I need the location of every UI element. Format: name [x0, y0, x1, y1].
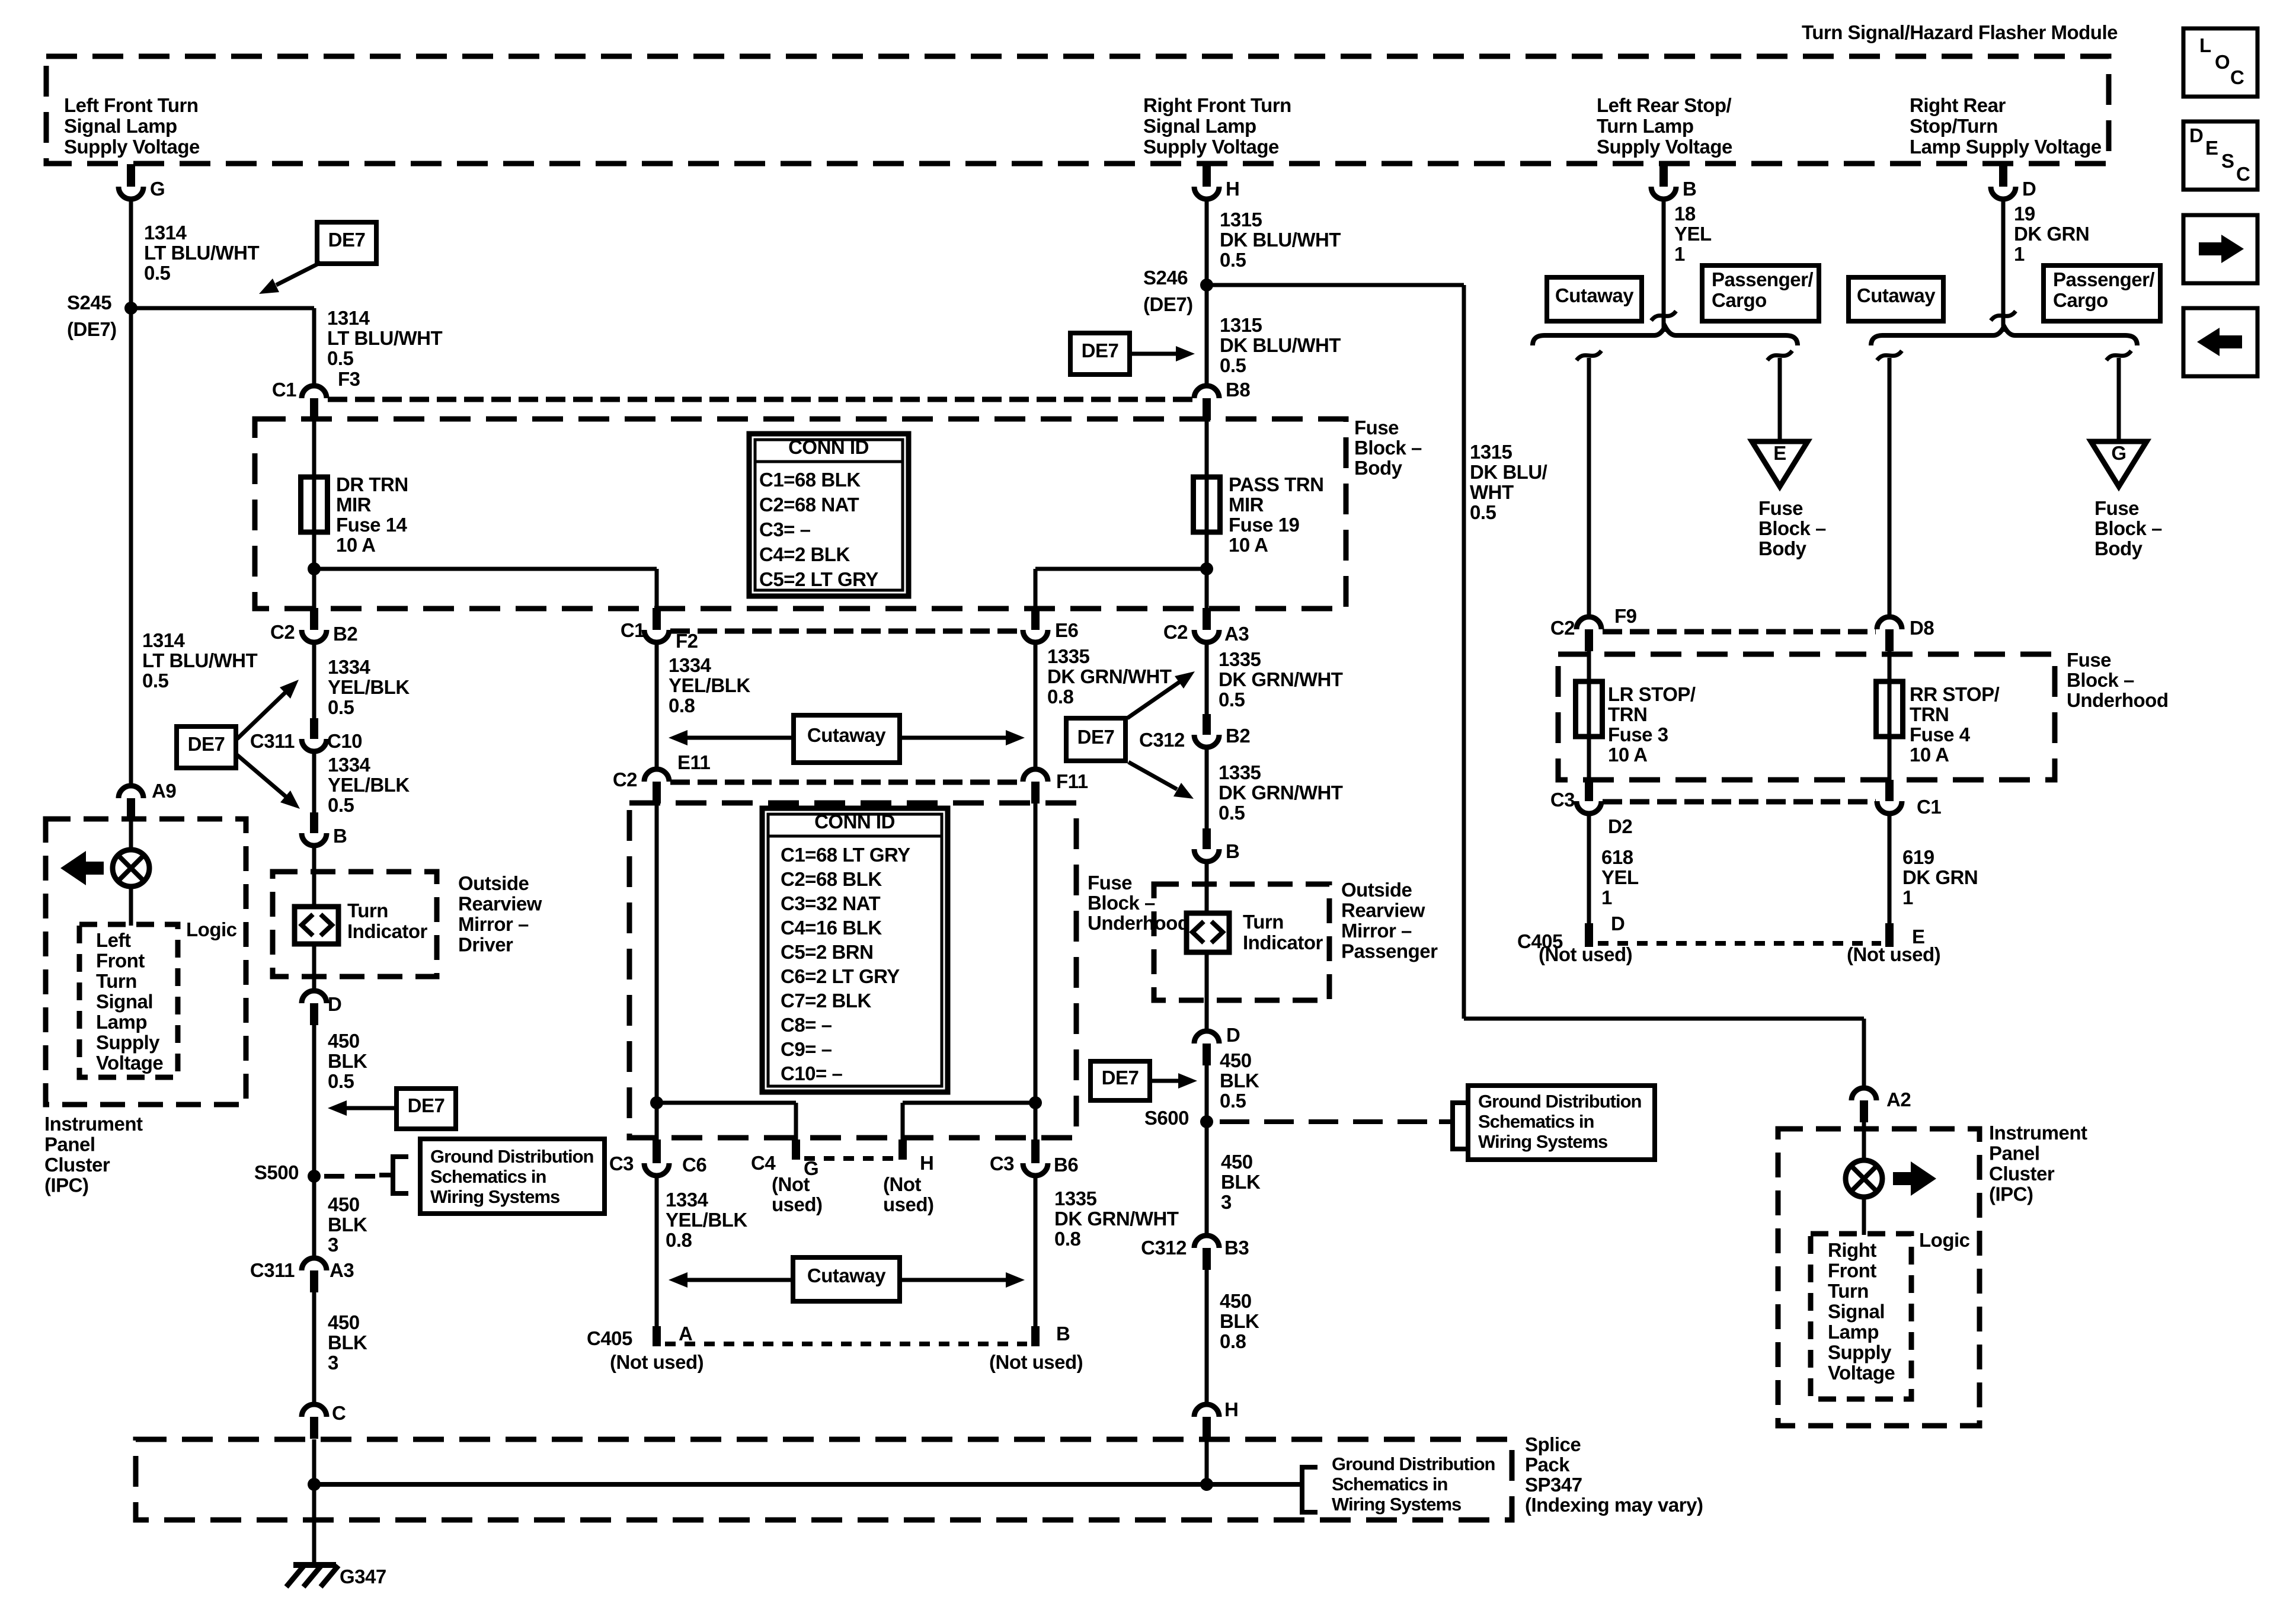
junction splice right — [1200, 1478, 1213, 1491]
dotted row C4 to H — [804, 1156, 894, 1161]
fuse DR TRN MIR Fuse 14 10A — [301, 477, 328, 532]
svg-text:used): used) — [883, 1193, 934, 1215]
svg-text:Outside: Outside — [458, 872, 529, 894]
wire D to brace — [2001, 198, 2006, 332]
wire H into splice box — [1205, 1439, 1209, 1486]
junction F11 branch — [1029, 1096, 1042, 1109]
stub A (C405) — [653, 1326, 661, 1346]
svg-text:(Not used): (Not used) — [1847, 943, 1940, 965]
svg-text:Rearview: Rearview — [458, 893, 542, 915]
svg-text:C312: C312 — [1141, 1237, 1187, 1259]
svg-text:0.5: 0.5 — [1470, 501, 1496, 523]
svg-text:E6: E6 — [1055, 619, 1079, 641]
svg-text:E: E — [1773, 442, 1786, 464]
CONN ID table 1 — [749, 434, 909, 596]
svg-text:Turn: Turn — [1243, 911, 1284, 933]
stub E (C405 right) — [1885, 923, 1894, 947]
svg-text:BLK: BLK — [1220, 1310, 1259, 1332]
svg-text:Block –: Block – — [1088, 892, 1155, 914]
connector C (splice pack) — [302, 1404, 327, 1417]
svg-text:1315: 1315 — [1220, 209, 1262, 231]
left indicator arrow — [60, 851, 86, 885]
wire C10 to B conn — [312, 751, 316, 813]
svg-text:C3: C3 — [990, 1153, 1014, 1174]
connector C3/C6 — [653, 1140, 661, 1163]
svg-text:C6: C6 — [682, 1154, 706, 1176]
break squiggle cutaway-left wire — [1576, 351, 1601, 360]
svg-text:C1=68 LT GRY: C1=68 LT GRY — [781, 844, 910, 866]
svg-text:H: H — [920, 1152, 933, 1174]
Turn Signal/Hazard Flasher Module box — [46, 56, 2109, 164]
connector A2 — [1851, 1088, 1876, 1100]
svg-text:0.5: 0.5 — [328, 794, 354, 816]
connector B8 — [1194, 386, 1219, 398]
svg-text:Turn: Turn — [347, 900, 388, 921]
wire fuse4 to C1 — [1888, 737, 1892, 781]
svg-text:C4=16 BLK: C4=16 BLK — [781, 917, 882, 939]
wire junction to F2 drop — [314, 567, 657, 571]
wire B3 to H (splice pack) — [1205, 1270, 1209, 1404]
svg-text:(IPC): (IPC) — [44, 1174, 89, 1196]
Instrument Panel Cluster box (left) — [46, 819, 246, 1105]
svg-text:A3: A3 — [330, 1259, 354, 1281]
svg-text:BLK: BLK — [1221, 1171, 1261, 1193]
svg-text:0.8: 0.8 — [1220, 1330, 1246, 1352]
wire E6 to F11 — [1034, 642, 1038, 769]
svg-text:3: 3 — [1221, 1191, 1232, 1213]
left turn signal lamp — [113, 850, 149, 886]
reference DE7 box 5 — [1091, 1061, 1150, 1100]
svg-text:C311: C311 — [250, 730, 295, 752]
arrow DE7-5 to wire — [1150, 1079, 1178, 1083]
wire D2 to stub D — [1587, 814, 1591, 924]
svg-text:DK GRN/WHT: DK GRN/WHT — [1047, 665, 1172, 687]
svg-text:A3: A3 — [1224, 623, 1249, 645]
wire B to brace — [1662, 198, 1666, 332]
svg-text:C10: C10 — [327, 730, 362, 752]
dash S500 to bracket — [324, 1174, 379, 1179]
wire A2 to lamp (right) — [1862, 1122, 1866, 1162]
svg-text:1: 1 — [1674, 243, 1685, 265]
wire to triangle E — [1778, 358, 1782, 440]
svg-text:YEL/BLK: YEL/BLK — [666, 1209, 747, 1231]
wire splice to ground — [312, 1484, 316, 1566]
connector pin D — [1999, 164, 2007, 187]
svg-text:Block –: Block – — [1354, 437, 1422, 459]
wire B2 to C311/C10 — [312, 642, 316, 719]
svg-text:B2: B2 — [1226, 725, 1250, 747]
connector D8 — [1877, 617, 1902, 629]
bracket SP347 — [1287, 1467, 1318, 1512]
svg-text:Left: Left — [96, 929, 131, 951]
turn indicator (passenger) — [1187, 913, 1229, 952]
wire branch to C4 — [657, 1101, 796, 1105]
arrow DE7-6 to wire — [347, 1106, 396, 1110]
svg-text:Logic: Logic — [1919, 1229, 1970, 1251]
svg-text:450: 450 — [328, 1030, 360, 1052]
svg-text:Body: Body — [1354, 457, 1403, 479]
arrow cutaway2 right — [900, 1278, 1006, 1282]
svg-text:Outside: Outside — [1341, 879, 1412, 901]
connector C3/D2 — [1585, 780, 1593, 801]
svg-text:D8: D8 — [1910, 617, 1934, 639]
svg-text:Indicator: Indicator — [1243, 932, 1323, 953]
Logic box (right) — [1811, 1234, 1911, 1399]
svg-text:Underhood: Underhood — [1088, 912, 1189, 934]
svg-text:10 A: 10 A — [336, 534, 375, 556]
svg-text:DK BLU/WHT: DK BLU/WHT — [1220, 229, 1341, 251]
connector C1/F2 — [653, 608, 661, 630]
wire turn indicator to D (passenger) — [1205, 952, 1209, 1031]
right-arrow legend box — [2183, 215, 2257, 283]
svg-text:C: C — [2230, 66, 2244, 88]
connector C2/A3 — [1203, 608, 1211, 630]
svg-text:Body: Body — [1758, 537, 1807, 559]
connector H (splice pack) — [1194, 1404, 1219, 1417]
svg-text:Schematics in: Schematics in — [1332, 1474, 1448, 1494]
svg-text:DK GRN/WHT: DK GRN/WHT — [1054, 1208, 1179, 1230]
Outside Rearview Mirror Passenger box — [1154, 884, 1329, 1000]
wire C1/F3 to fuse 14 — [312, 420, 316, 477]
svg-text:Mirror –: Mirror – — [1341, 920, 1412, 942]
reference DE7 box 4 — [1066, 718, 1125, 761]
splice S245 — [124, 302, 137, 315]
svg-text:Left Front Turn: Left Front Turn — [64, 94, 199, 116]
svg-text:1335: 1335 — [1219, 648, 1261, 670]
fuse RR STOP/TRN Fuse 4 10A — [1876, 681, 1903, 737]
stub C4 — [792, 1140, 800, 1160]
svg-text:DE7: DE7 — [1077, 726, 1115, 748]
svg-text:YEL/BLK: YEL/BLK — [328, 774, 410, 796]
svg-text:Mirror –: Mirror – — [458, 913, 529, 935]
svg-text:(Not used): (Not used) — [989, 1351, 1083, 1373]
wire B8 to fuse 19 — [1205, 420, 1209, 477]
wire fuse3 to C3/D2 — [1587, 737, 1591, 781]
junction E11 branch — [650, 1096, 663, 1109]
svg-text:1: 1 — [2014, 243, 2025, 265]
svg-text:C5=2 LT GRY: C5=2 LT GRY — [759, 568, 878, 590]
svg-text:Front: Front — [96, 950, 145, 972]
svg-text:1334: 1334 — [328, 656, 371, 678]
svg-text:(Not: (Not — [772, 1173, 810, 1195]
svg-text:Panel: Panel — [1989, 1142, 2040, 1164]
wire B to turn indicator — [312, 846, 316, 907]
svg-text:(Not used): (Not used) — [1539, 943, 1632, 965]
reference DE7 box 6 — [396, 1089, 456, 1129]
wire junction to A3conn — [1205, 569, 1209, 609]
Splice Pack box — [136, 1439, 1512, 1520]
wire A3 to C — [312, 1292, 316, 1404]
svg-text:DE7: DE7 — [188, 733, 225, 755]
wire S600 to C312/B3 — [1205, 1122, 1209, 1235]
svg-text:1315: 1315 — [1470, 441, 1512, 463]
bracket S500 — [379, 1157, 408, 1193]
connector C1 (right) — [1885, 780, 1894, 801]
svg-text:C1: C1 — [621, 619, 645, 641]
svg-text:LT BLU/WHT: LT BLU/WHT — [144, 242, 260, 264]
svg-text:Lamp: Lamp — [1828, 1321, 1879, 1343]
svg-text:1334: 1334 — [328, 754, 371, 776]
svg-text:Fuse 19: Fuse 19 — [1229, 514, 1300, 536]
svg-text:0.8: 0.8 — [666, 1229, 692, 1251]
svg-text:E: E — [2205, 137, 2218, 159]
svg-text:DK BLU/: DK BLU/ — [1470, 461, 1547, 483]
svg-text:Body: Body — [2094, 537, 2143, 559]
splice S500 — [308, 1170, 321, 1183]
svg-text:BLK: BLK — [328, 1050, 367, 1072]
svg-text:450: 450 — [328, 1193, 360, 1215]
svg-text:Logic: Logic — [186, 918, 237, 940]
wire G to A9 — [129, 198, 133, 786]
Logic box (left) — [79, 924, 178, 1077]
break squiggle B wire — [1651, 311, 1676, 321]
svg-text:C3: C3 — [1550, 789, 1575, 811]
wire F2 to E11 — [655, 642, 659, 769]
svg-text:Fuse 4: Fuse 4 — [1910, 724, 1971, 745]
svg-text:Cluster: Cluster — [1989, 1163, 2055, 1185]
svg-text:B: B — [333, 825, 347, 847]
svg-text:Voltage: Voltage — [96, 1052, 163, 1074]
svg-text:1335: 1335 — [1047, 645, 1090, 667]
brace left group — [1533, 327, 1798, 345]
Passenger/Cargo box 2 — [2044, 265, 2160, 321]
left-arrow legend box — [2183, 308, 2257, 376]
CONN ID table 2 — [762, 808, 948, 1092]
arrow DE7-1 to wire — [276, 263, 321, 285]
wire A9 to lamp — [129, 820, 133, 852]
svg-text:DK GRN: DK GRN — [2014, 223, 2089, 245]
svg-text:0.5: 0.5 — [1220, 249, 1246, 271]
dotted row E11 to F11 — [670, 780, 1022, 785]
svg-text:450: 450 — [1220, 1049, 1252, 1071]
svg-text:Turn Signal/Hazard Flasher Mod: Turn Signal/Hazard Flasher Module — [1802, 21, 2118, 43]
svg-text:H: H — [1226, 178, 1239, 200]
svg-text:C: C — [2236, 163, 2250, 185]
connector C311/A3 — [302, 1258, 327, 1270]
svg-text:BLK: BLK — [1220, 1070, 1259, 1092]
svg-text:Fuse: Fuse — [2094, 497, 2139, 519]
arrow DE7-4 upper — [1127, 682, 1179, 718]
svg-text:Signal Lamp: Signal Lamp — [64, 115, 177, 137]
svg-text:CONN ID: CONN ID — [814, 811, 895, 833]
svg-text:D2: D2 — [1608, 815, 1632, 837]
svg-text:Fuse: Fuse — [2067, 649, 2111, 671]
wire fuse14 to junction — [312, 532, 316, 570]
connector C3/B6 — [1031, 1140, 1040, 1163]
svg-text:LR STOP/: LR STOP/ — [1608, 683, 1696, 705]
connector C311/C10 — [310, 718, 318, 739]
svg-text:C6=2 LT GRY: C6=2 LT GRY — [781, 965, 900, 987]
svg-text:C5=2 BRN: C5=2 BRN — [781, 941, 873, 963]
svg-text:Fuse 3: Fuse 3 — [1608, 724, 1668, 745]
svg-text:10 A: 10 A — [1608, 744, 1647, 766]
svg-text:Indicator: Indicator — [347, 920, 428, 942]
svg-text:RR STOP/: RR STOP/ — [1910, 683, 2000, 705]
svg-text:0.5: 0.5 — [1220, 354, 1246, 376]
break squiggle cutaway-right wire — [1877, 351, 1902, 360]
stub B (C405) — [1031, 1326, 1040, 1346]
svg-text:SP347: SP347 — [1525, 1474, 1582, 1496]
svg-text:C: C — [332, 1402, 346, 1424]
svg-text:Stop/Turn: Stop/Turn — [1910, 115, 1998, 137]
connector C312/B3 — [1194, 1235, 1219, 1248]
dash S600 to bracket — [1220, 1119, 1439, 1124]
connector C2/E11 — [644, 769, 669, 782]
arrow DE7-2 to wire — [1130, 352, 1176, 356]
connector D (driver mirror) — [302, 991, 327, 1003]
connector A9 — [119, 786, 143, 798]
Cutaway box 2 — [793, 1257, 900, 1301]
wire S246 to fuse block body drop — [1207, 283, 1464, 287]
connector B (mirror driver) — [310, 812, 318, 833]
arrow DE7-3 lower — [237, 755, 286, 796]
svg-text:1315: 1315 — [1220, 314, 1262, 336]
wire S246 drop to IPC right — [1462, 285, 1466, 1019]
Passenger/Cargo box 1 — [1702, 265, 1819, 321]
svg-text:C2=68 BLK: C2=68 BLK — [781, 868, 882, 890]
bracket S600 — [1439, 1103, 1468, 1149]
svg-text:Block –: Block – — [1758, 517, 1826, 539]
wire C1 to stub E — [1888, 814, 1892, 924]
svg-text:18: 18 — [1674, 203, 1696, 225]
svg-text:C312: C312 — [1139, 729, 1185, 751]
wire lamp to logic box — [129, 886, 133, 926]
wire to D8 — [1888, 358, 1892, 617]
splice S600 — [1200, 1115, 1213, 1128]
reference DE7 box 2 — [1070, 333, 1130, 375]
svg-text:(Not used): (Not used) — [610, 1351, 703, 1373]
svg-text:1334: 1334 — [666, 1189, 709, 1211]
svg-text:1335: 1335 — [1054, 1188, 1097, 1209]
svg-text:Ground Distribution: Ground Distribution — [430, 1146, 594, 1167]
svg-text:Panel: Panel — [44, 1134, 95, 1156]
svg-text:1314: 1314 — [327, 307, 370, 329]
triangle connector E — [1752, 441, 1808, 486]
svg-text:1314: 1314 — [142, 629, 186, 651]
svg-text:0.8: 0.8 — [1054, 1228, 1081, 1250]
svg-text:DK GRN/WHT: DK GRN/WHT — [1219, 668, 1343, 690]
svg-text:0.5: 0.5 — [144, 262, 171, 284]
wire C6 to A — [655, 1176, 659, 1327]
connector C1/F3 — [302, 386, 327, 398]
svg-text:C2: C2 — [613, 769, 637, 790]
dotted row C1/F3 to B8 — [328, 397, 1193, 402]
svg-text:G: G — [150, 178, 165, 200]
svg-text:D: D — [1611, 913, 1625, 934]
svg-text:Schematics in: Schematics in — [430, 1166, 546, 1187]
wire turn indicator to D — [312, 944, 316, 991]
svg-text:B6: B6 — [1054, 1154, 1078, 1176]
svg-text:Splice: Splice — [1525, 1433, 1581, 1455]
wire F11 to B6 — [1034, 804, 1038, 1140]
svg-text:Wiring Systems: Wiring Systems — [430, 1186, 559, 1207]
connector D (passenger mirror) — [1194, 1031, 1219, 1044]
connector C2/B2 — [310, 608, 318, 630]
svg-text:S: S — [2221, 150, 2234, 172]
Cutaway box 3 — [1547, 277, 1642, 321]
svg-text:C1: C1 — [272, 379, 296, 401]
svg-text:DK BLU/WHT: DK BLU/WHT — [1220, 334, 1341, 356]
connector F11 — [1023, 769, 1048, 782]
svg-text:Instrument: Instrument — [44, 1113, 143, 1135]
svg-text:DE7: DE7 — [408, 1094, 445, 1116]
wire lamp to logic (right) — [1862, 1196, 1866, 1235]
svg-text:C10= –: C10= – — [781, 1062, 842, 1084]
svg-text:Cutaway: Cutaway — [1857, 284, 1936, 306]
arrow DE7-4 lower — [1128, 762, 1177, 789]
svg-text:G347: G347 — [340, 1566, 386, 1587]
break squiggle D wire — [1991, 311, 2016, 321]
svg-text:(IPC): (IPC) — [1989, 1183, 2033, 1205]
dotted row F2 to E6 — [670, 629, 1022, 634]
svg-text:Fuse: Fuse — [1354, 417, 1399, 438]
ground G347 — [293, 1562, 336, 1568]
svg-text:3: 3 — [328, 1352, 338, 1374]
svg-text:Turn Lamp: Turn Lamp — [1597, 115, 1694, 137]
turn indicator (driver) — [295, 907, 338, 944]
arrow DE7-3 upper — [237, 693, 285, 739]
connector C312/B2 — [1203, 714, 1211, 735]
DESC legend box — [2183, 121, 2257, 190]
svg-text:D: D — [2189, 124, 2203, 146]
svg-text:1: 1 — [1902, 886, 1913, 908]
svg-text:(Indexing may vary): (Indexing may vary) — [1525, 1494, 1703, 1516]
svg-text:DK GRN: DK GRN — [1902, 866, 1978, 888]
connector B (mirror passenger) — [1203, 828, 1211, 849]
svg-text:Fuse 14: Fuse 14 — [336, 514, 408, 536]
svg-text:Left Rear Stop/: Left Rear Stop/ — [1597, 94, 1732, 116]
wire F9 to fuse 3 — [1587, 651, 1591, 681]
svg-text:C8= –: C8= – — [781, 1014, 832, 1036]
arrow cutaway2 left — [687, 1278, 793, 1282]
svg-text:DR TRN: DR TRN — [336, 473, 408, 495]
svg-text:Supply Voltage: Supply Voltage — [1143, 136, 1279, 158]
svg-text:C1: C1 — [1917, 796, 1941, 818]
wire B6 to B — [1034, 1176, 1038, 1327]
svg-text:D: D — [1226, 1024, 1240, 1046]
svg-text:DE7: DE7 — [1082, 340, 1119, 361]
svg-text:C7=2 BLK: C7=2 BLK — [781, 990, 871, 1012]
svg-text:D: D — [328, 993, 341, 1015]
svg-text:E11: E11 — [677, 751, 711, 773]
svg-text:BLK: BLK — [328, 1331, 367, 1353]
svg-text:(Not: (Not — [883, 1173, 921, 1195]
svg-text:619: 619 — [1902, 846, 1934, 868]
svg-text:Cargo: Cargo — [1712, 289, 1767, 311]
junction below fuse 14 — [308, 562, 321, 575]
dotted row F9 to D8 — [1603, 629, 1876, 635]
connector C2/F9 — [1576, 617, 1601, 629]
svg-text:C2=68 NAT: C2=68 NAT — [759, 494, 859, 516]
arrow cutaway1 left — [687, 736, 794, 740]
svg-text:10 A: 10 A — [1910, 744, 1949, 766]
svg-text:C9= –: C9= – — [781, 1038, 832, 1060]
svg-text:Right: Right — [1828, 1239, 1876, 1261]
arrow cutaway1 right — [900, 736, 1006, 740]
svg-text:LT BLU/WHT: LT BLU/WHT — [142, 649, 258, 671]
wire to triangle G — [2117, 358, 2121, 440]
svg-text:WHT: WHT — [1470, 481, 1514, 503]
svg-text:Lamp: Lamp — [96, 1011, 147, 1033]
svg-text:L: L — [2199, 34, 2211, 56]
svg-text:C4: C4 — [751, 1152, 776, 1174]
svg-text:MIR: MIR — [336, 494, 372, 516]
Cutaway box 1 — [794, 715, 900, 763]
svg-text:(DE7): (DE7) — [1143, 293, 1193, 315]
wire splice horizontal — [314, 1482, 1287, 1487]
svg-text:used): used) — [772, 1193, 823, 1215]
Fuse Block - Underhood box (left) — [629, 803, 1076, 1138]
